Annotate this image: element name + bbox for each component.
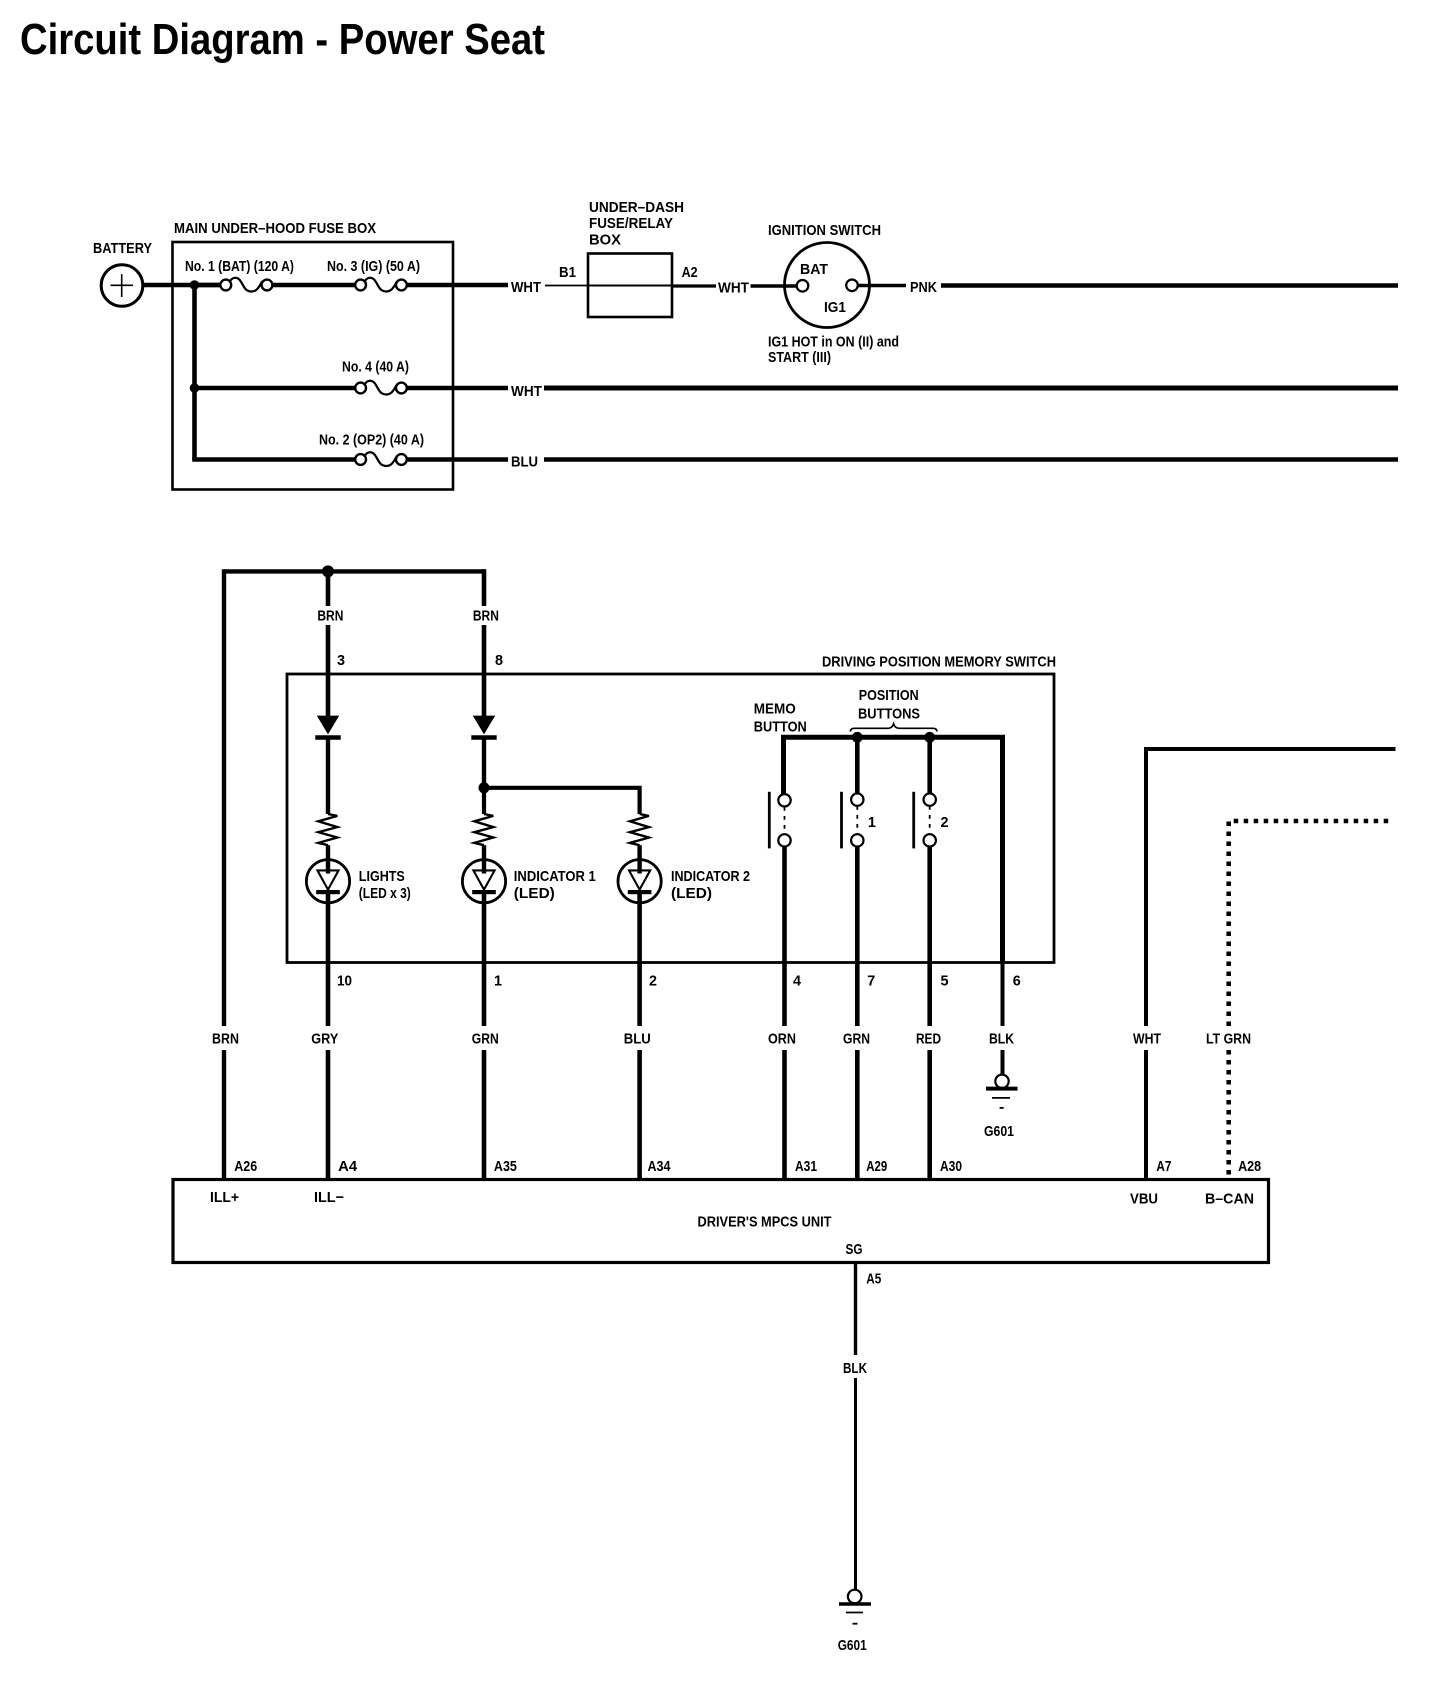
wire SG to ground [854, 1263, 857, 1591]
wire LED1 down [326, 893, 331, 1180]
wire mid top horizontal [224, 569, 484, 573]
label LIGHTS (LED x 3) [359, 868, 411, 902]
svg-text:No. 4 (40 A): No. 4 (40 A) [342, 358, 409, 375]
wire junction vertical feed [192, 285, 197, 460]
resistor R2 [474, 814, 493, 845]
wire junction to fuse4 [195, 386, 356, 391]
fuse No.3 [355, 278, 407, 292]
svg-text:BLK: BLK [843, 1360, 867, 1377]
svg-text:G601: G601 [984, 1123, 1014, 1140]
svg-text:DRIVER'S MPCS UNIT: DRIVER'S MPCS UNIT [698, 1214, 832, 1231]
svg-text:4: 4 [793, 973, 802, 990]
svg-text:B–CAN: B–CAN [1205, 1191, 1254, 1208]
svg-text:WHT: WHT [1133, 1031, 1161, 1048]
wire WHT to ignition switch [751, 284, 797, 288]
svg-text:(LED): (LED) [671, 885, 712, 902]
wire BLU to right edge [544, 457, 1398, 462]
pin IG1 terminal [846, 280, 858, 292]
svg-text:BAT: BAT [800, 261, 828, 278]
diode D1 [315, 716, 340, 738]
svg-text:INDICATOR 1: INDICATOR 1 [514, 868, 596, 885]
pin BAT terminal [797, 280, 809, 292]
wire WHT to under-dash box B1 [545, 285, 588, 287]
svg-text:LIGHTS: LIGHTS [359, 868, 405, 885]
wire A2 to WHT [672, 284, 716, 287]
wire IG1 terminal to PNK [858, 284, 906, 288]
ground G601 bottom [839, 1590, 871, 1624]
svg-text:DRIVING POSITION MEMORY SWITCH: DRIVING POSITION MEMORY SWITCH [822, 654, 1056, 671]
fuse No.4 [355, 381, 407, 395]
wire junction down [482, 788, 486, 814]
wire fuse2 to BLU [407, 457, 508, 462]
svg-text:Circuit Diagram - Power Seat: Circuit Diagram - Power Seat [20, 15, 545, 64]
wire diode1 to resistor1 [326, 738, 330, 815]
wire fuse1 to fuse3 [272, 283, 355, 287]
wire position1 down [855, 847, 860, 1180]
svg-text:A4: A4 [338, 1158, 358, 1175]
wire LED3 down [637, 893, 642, 1180]
wire B-CAN LT GRN dashed [1229, 821, 1390, 1180]
svg-text:BUTTON: BUTTON [754, 719, 807, 736]
driving position memory switch box [287, 674, 1054, 963]
node battery junction [190, 280, 200, 290]
svg-text:A30: A30 [940, 1158, 962, 1175]
ground G601 switch [986, 1075, 1018, 1108]
svg-text:BATTERY: BATTERY [93, 240, 152, 257]
svg-text:BRN: BRN [212, 1031, 239, 1048]
svg-text:GRN: GRN [472, 1031, 499, 1048]
svg-text:A26: A26 [234, 1158, 257, 1175]
svg-text:3: 3 [337, 652, 345, 669]
svg-text:2: 2 [649, 973, 657, 990]
svg-text:LT GRN: LT GRN [1206, 1031, 1251, 1048]
svg-text:1: 1 [868, 814, 876, 831]
svg-text:MEMO: MEMO [754, 701, 796, 718]
svg-text:GRY: GRY [311, 1031, 338, 1048]
svg-text:BOX: BOX [589, 232, 621, 249]
resistor R1 [318, 814, 337, 845]
svg-text:PNK: PNK [910, 279, 937, 296]
svg-text:ILL−: ILL− [314, 1189, 344, 1206]
wire resistor3 to LED3 [637, 845, 641, 861]
svg-text:G601: G601 [838, 1637, 867, 1654]
svg-text:BRN: BRN [317, 607, 343, 624]
ignition note [768, 334, 899, 367]
battery B1 [101, 265, 143, 307]
svg-text:ORN: ORN [768, 1031, 796, 1048]
ignition switch body [785, 243, 870, 328]
svg-text:BLU: BLU [511, 453, 538, 470]
node mid junction [322, 565, 334, 577]
svg-text:ILL+: ILL+ [210, 1189, 239, 1206]
wire PNK to right edge [941, 283, 1398, 287]
wire through under-dash box [588, 285, 672, 287]
wire position2 down [927, 847, 932, 1180]
svg-text:No. 1 (BAT) (120 A): No. 1 (BAT) (120 A) [185, 258, 294, 275]
switch position 1 [842, 737, 864, 848]
wire VBU WHT corner [1146, 749, 1396, 1180]
svg-text:SG: SG [846, 1241, 863, 1258]
wire memo down [782, 847, 787, 1180]
svg-text:A28: A28 [1238, 1158, 1261, 1175]
svg-text:VBU: VBU [1130, 1191, 1158, 1208]
svg-text:A2: A2 [682, 264, 698, 281]
svg-text:A5: A5 [866, 1271, 881, 1288]
svg-text:BUTTONS: BUTTONS [858, 706, 920, 723]
resistor R3 [630, 814, 649, 845]
wire battery to fuse box [144, 283, 222, 287]
svg-text:2: 2 [941, 814, 949, 831]
switch position 2 [914, 737, 936, 848]
wire WHT row2 to right edge [544, 386, 1398, 391]
svg-text:MAIN UNDER–HOOD FUSE BOX: MAIN UNDER–HOOD FUSE BOX [174, 220, 376, 237]
svg-text:FUSE/RELAY: FUSE/RELAY [589, 215, 673, 232]
diode D2 [471, 716, 496, 738]
brace position buttons [850, 724, 937, 732]
LED INDICATOR 1 symbol [462, 858, 505, 903]
svg-text:BLU: BLU [624, 1031, 651, 1048]
LED INDICATOR 2 symbol [618, 858, 661, 903]
wire resistor1 to LED1 [326, 845, 330, 861]
svg-text:GRN: GRN [843, 1031, 870, 1048]
svg-text:10: 10 [337, 973, 352, 990]
label POSITION BUTTONS [858, 687, 920, 723]
svg-text:POSITION: POSITION [859, 687, 919, 704]
driver's MPCS unit box [173, 1180, 1269, 1263]
wire switch rail [784, 737, 1003, 962]
wire lights column BRN [326, 571, 331, 717]
svg-text:IG1 HOT in ON (II) and: IG1 HOT in ON (II) and [768, 334, 899, 351]
svg-text:B1: B1 [559, 264, 576, 281]
svg-text:A7: A7 [1156, 1158, 1171, 1175]
wire fuse4 to WHT [407, 386, 508, 391]
node junction row2 [190, 383, 200, 393]
svg-text:WHT: WHT [511, 279, 541, 296]
svg-text:6: 6 [1013, 973, 1021, 990]
wire indicator column BRN [482, 569, 487, 717]
node rail position2 [924, 732, 935, 743]
main under-hood fuse box outline [173, 242, 454, 490]
fuse No.1 [199, 278, 272, 292]
svg-text:START (III): START (III) [768, 349, 831, 366]
svg-text:1: 1 [494, 973, 502, 990]
svg-text:IG1: IG1 [824, 299, 846, 316]
svg-text:A29: A29 [866, 1158, 887, 1175]
LED LIGHTS symbol [306, 858, 349, 903]
svg-text:5: 5 [941, 973, 949, 990]
wire LED2 down [482, 893, 487, 1180]
svg-text:RED: RED [916, 1031, 941, 1048]
switch MEMO button [769, 792, 790, 849]
wire junction to fuse2 [192, 457, 355, 462]
svg-text:A34: A34 [648, 1158, 672, 1175]
wire pin6 BLK to ground [1001, 963, 1005, 1075]
svg-text:IGNITION SWITCH: IGNITION SWITCH [768, 222, 881, 239]
label INDICATOR 1 (LED) [514, 868, 596, 902]
under-dash fuse/relay box [588, 254, 672, 318]
svg-text:No. 2 (OP2) (40 A): No. 2 (OP2) (40 A) [319, 432, 424, 449]
svg-text:WHT: WHT [511, 383, 542, 400]
svg-text:A31: A31 [795, 1158, 817, 1175]
svg-text:7: 7 [867, 973, 875, 990]
wire fuse3 to WHT [407, 283, 508, 287]
node indicator junction [479, 782, 490, 793]
svg-text:8: 8 [495, 652, 503, 669]
node rail position1 [852, 732, 863, 743]
svg-text:(LED x 3): (LED x 3) [359, 885, 411, 902]
wire ILL+ vertical BRN [222, 569, 226, 1179]
svg-text:(LED): (LED) [514, 885, 555, 902]
fuse No.2 [355, 452, 407, 466]
svg-text:WHT: WHT [718, 280, 749, 297]
wire diode2 to junction [482, 738, 486, 791]
svg-text:BRN: BRN [473, 607, 499, 624]
label INDICATOR 2 (LED) [671, 868, 750, 902]
svg-text:A35: A35 [494, 1158, 517, 1175]
label MEMO BUTTON [754, 701, 807, 736]
svg-text:UNDER–DASH: UNDER–DASH [589, 199, 684, 216]
svg-text:BLK: BLK [989, 1031, 1014, 1048]
wire resistor2 to LED2 [482, 845, 486, 861]
svg-text:INDICATOR 2: INDICATOR 2 [671, 868, 750, 885]
under-dash fuse/relay box label [589, 199, 684, 249]
svg-text:No. 3 (IG) (50 A): No. 3 (IG) (50 A) [327, 258, 420, 275]
wire junction to indicator2 column [484, 788, 640, 814]
